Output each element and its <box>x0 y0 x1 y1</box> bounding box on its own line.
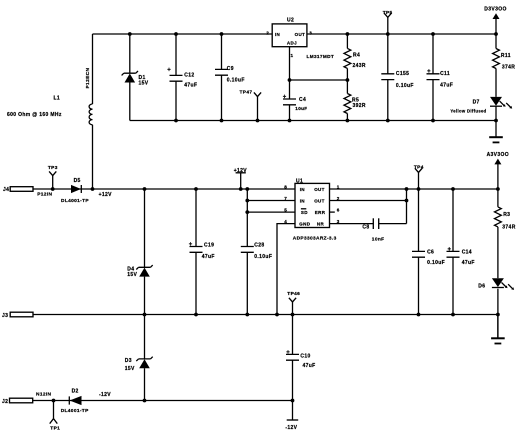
capacitor C12 47uF <box>167 34 197 121</box>
svg-text:IN: IN <box>275 32 280 37</box>
svg-text:600 Ohm @ 160 MHz: 600 Ohm @ 160 MHz <box>7 112 62 118</box>
wire U1 OUT pin2 <box>330 200 407 202</box>
svg-text:ADP3303ARZ-3.3: ADP3303ARZ-3.3 <box>293 236 337 242</box>
svg-text:TP3: TP3 <box>48 165 58 171</box>
svg-text:3: 3 <box>309 31 312 36</box>
svg-text:+: + <box>286 350 290 356</box>
svg-text:GND: GND <box>299 222 310 227</box>
svg-text:A3V3OO: A3V3OO <box>487 152 509 158</box>
LED D7 Yellow Diffused <box>450 97 512 137</box>
zener D1 15V <box>122 34 149 121</box>
svg-text:TP1: TP1 <box>50 425 60 431</box>
svg-text:IN: IN <box>300 199 305 204</box>
zener D3 15V <box>125 315 153 401</box>
wire top rail right (U2 OUT to D3V3OO node) <box>307 33 496 35</box>
svg-text:15V: 15V <box>139 81 149 87</box>
svg-text:7: 7 <box>284 196 287 201</box>
capacitor C28 0.10uF <box>241 189 272 315</box>
svg-text:392R: 392R <box>353 103 366 109</box>
capacitor C19 47uF <box>189 189 215 315</box>
wire ADJ node to R4/R5 junction <box>290 79 348 81</box>
wire top rail left (input to U2 IN) <box>93 33 273 35</box>
wire left input vertical <box>92 34 94 104</box>
svg-text:P12ECN: P12ECN <box>85 68 91 89</box>
power symbol A3V3OO <box>487 152 509 189</box>
svg-text:D3: D3 <box>125 358 132 364</box>
resistor R4 243R <box>344 34 366 80</box>
connector J2 <box>2 398 33 405</box>
capacitor C6 0.10uF <box>412 189 445 315</box>
svg-text:IN: IN <box>300 187 305 192</box>
capacitor C4 10uF <box>283 95 308 121</box>
svg-text:C19: C19 <box>204 243 214 249</box>
svg-text:47uF: 47uF <box>202 254 215 260</box>
svg-text:C14: C14 <box>462 249 472 255</box>
wire ground rail of top circuit <box>130 120 496 122</box>
op-amp U1 ADP3303ARZ-3.3 <box>284 179 339 242</box>
wire -12V rail <box>33 400 293 402</box>
svg-text:+: + <box>427 69 431 75</box>
svg-text:+: + <box>283 95 287 101</box>
wire U1 OUT pin1 to A3V3 node <box>330 188 498 190</box>
svg-text:J2: J2 <box>2 399 8 405</box>
svg-text:47uF: 47uF <box>462 260 475 266</box>
svg-text:R4: R4 <box>353 53 360 59</box>
svg-text:0.10uF: 0.10uF <box>396 83 414 89</box>
power symbol D3V3OO <box>484 7 506 34</box>
svg-text:TP5: TP5 <box>383 10 393 16</box>
wire OUT1-OUT2-NR vertical <box>406 189 408 224</box>
svg-text:374R: 374R <box>502 64 515 70</box>
capacitor C14 47uF <box>447 189 475 315</box>
svg-text:+12V: +12V <box>99 192 113 198</box>
svg-text:C12: C12 <box>184 72 194 78</box>
svg-text:D7: D7 <box>473 99 480 105</box>
svg-text:C4: C4 <box>299 97 306 103</box>
diode D5 DL4001-TP <box>61 178 89 204</box>
svg-text:TP46: TP46 <box>287 291 300 297</box>
svg-text:DL4001-TP: DL4001-TP <box>61 408 89 414</box>
op-amp U2 LM317MDT regulator <box>266 17 334 59</box>
junction dots mid rails <box>51 187 500 214</box>
svg-text:+: + <box>167 67 171 73</box>
svg-text:U2: U2 <box>287 17 294 23</box>
test point TP5 <box>383 10 393 34</box>
power tap -12V <box>285 420 298 431</box>
svg-text:47uF: 47uF <box>440 83 453 89</box>
svg-text:6: 6 <box>337 208 340 213</box>
svg-text:15V: 15V <box>127 272 137 278</box>
svg-text:LM317MDT: LM317MDT <box>307 54 335 59</box>
resistor R3 374R <box>495 189 516 278</box>
svg-text:ADJ: ADJ <box>287 41 297 46</box>
diode D2 DL4001-TP <box>61 388 89 414</box>
svg-text:-12V: -12V <box>285 425 297 431</box>
power tap +12V <box>234 168 248 189</box>
capacitor C155 0.10uF <box>381 34 414 121</box>
svg-text:OUT: OUT <box>314 199 325 204</box>
connector J4 <box>3 187 33 193</box>
svg-text:D3V3OO: D3V3OO <box>484 7 506 13</box>
svg-text:R3: R3 <box>503 212 510 218</box>
svg-text:C8: C8 <box>362 225 369 231</box>
svg-text:L1: L1 <box>54 95 61 101</box>
ground below D7 <box>489 137 503 142</box>
svg-text:TP47: TP47 <box>240 90 253 96</box>
test point TP47 <box>240 90 262 121</box>
capacitor C10 47uF <box>286 315 316 421</box>
wire inductor to +12V rail <box>92 125 94 189</box>
capacitor C8 10nF <box>362 218 406 242</box>
wire ground rail <box>33 314 498 316</box>
svg-text:C28: C28 <box>254 243 264 249</box>
svg-text:N12IN: N12IN <box>36 391 52 397</box>
svg-text:10uF: 10uF <box>295 106 307 111</box>
ground below D6 <box>491 315 505 344</box>
wire U1 NR pin3 <box>330 223 374 225</box>
test point TP46 <box>287 291 300 315</box>
wire ERR stub pin6 <box>330 211 335 213</box>
svg-text:C11: C11 <box>440 71 450 77</box>
test point TP1 <box>50 401 60 432</box>
connector J3 <box>2 312 33 319</box>
test point TP3 <box>48 165 58 189</box>
svg-text:OUT: OUT <box>295 32 306 37</box>
svg-text:4: 4 <box>284 219 287 224</box>
wire U1 SD pin5 <box>247 211 295 213</box>
svg-text:C9: C9 <box>227 66 234 72</box>
svg-text:0.10uF: 0.10uF <box>427 260 445 266</box>
svg-text:2: 2 <box>266 31 269 36</box>
svg-text:243R: 243R <box>353 63 366 69</box>
svg-text:SD: SD <box>301 210 308 215</box>
svg-text:U1: U1 <box>296 179 303 185</box>
capacitor C9 0.10uF <box>215 34 245 121</box>
wire U1 IN pin7 <box>247 200 295 202</box>
wire +12V rail <box>33 188 295 190</box>
svg-text:C155: C155 <box>396 71 409 77</box>
junction dots top rails <box>128 32 498 122</box>
svg-text:-12V: -12V <box>99 392 111 398</box>
svg-text:47uF: 47uF <box>303 363 316 369</box>
resistor R5 392R <box>344 80 366 121</box>
svg-text:8: 8 <box>284 184 287 189</box>
svg-text:D5: D5 <box>74 178 81 184</box>
LED D6 <box>478 278 514 338</box>
svg-text:D6: D6 <box>478 283 485 289</box>
svg-text:15V: 15V <box>125 366 135 372</box>
svg-text:10nF: 10nF <box>372 237 385 243</box>
capacitor C11 47uF <box>427 34 454 121</box>
svg-text:C10: C10 <box>300 354 310 360</box>
zener D4 15V <box>127 189 152 315</box>
svg-text:NR: NR <box>317 222 325 227</box>
svg-text:P12IN: P12IN <box>37 192 52 198</box>
svg-text:0.10uF: 0.10uF <box>254 254 272 260</box>
svg-text:ERR: ERR <box>315 210 326 215</box>
junction dots bottom rails <box>52 313 500 403</box>
svg-text:374R: 374R <box>502 224 515 230</box>
svg-text:J3: J3 <box>2 313 8 319</box>
svg-text:+: + <box>189 242 193 248</box>
svg-text:D2: D2 <box>72 388 79 394</box>
svg-text:TP4: TP4 <box>414 164 424 170</box>
wire U2 ADJ down <box>289 47 291 99</box>
svg-text:Yellow Diffused: Yellow Diffused <box>450 109 486 114</box>
svg-text:1: 1 <box>291 53 294 58</box>
svg-text:OUT: OUT <box>314 187 325 192</box>
inductor L1 600 Ohm @ 160 MHz <box>89 104 92 125</box>
svg-text:47uF: 47uF <box>184 83 197 89</box>
test point TP4 <box>414 164 424 189</box>
svg-text:DL4001-TP: DL4001-TP <box>61 198 89 204</box>
svg-text:R11: R11 <box>501 53 511 59</box>
wire U1 GND pin4 <box>277 224 295 315</box>
svg-text:0.10uF: 0.10uF <box>227 78 245 84</box>
svg-text:J4: J4 <box>3 187 9 193</box>
svg-text:+: + <box>448 247 452 253</box>
svg-text:5: 5 <box>284 208 287 213</box>
svg-text:C6: C6 <box>427 249 434 255</box>
resistor R11 374R <box>493 34 516 97</box>
